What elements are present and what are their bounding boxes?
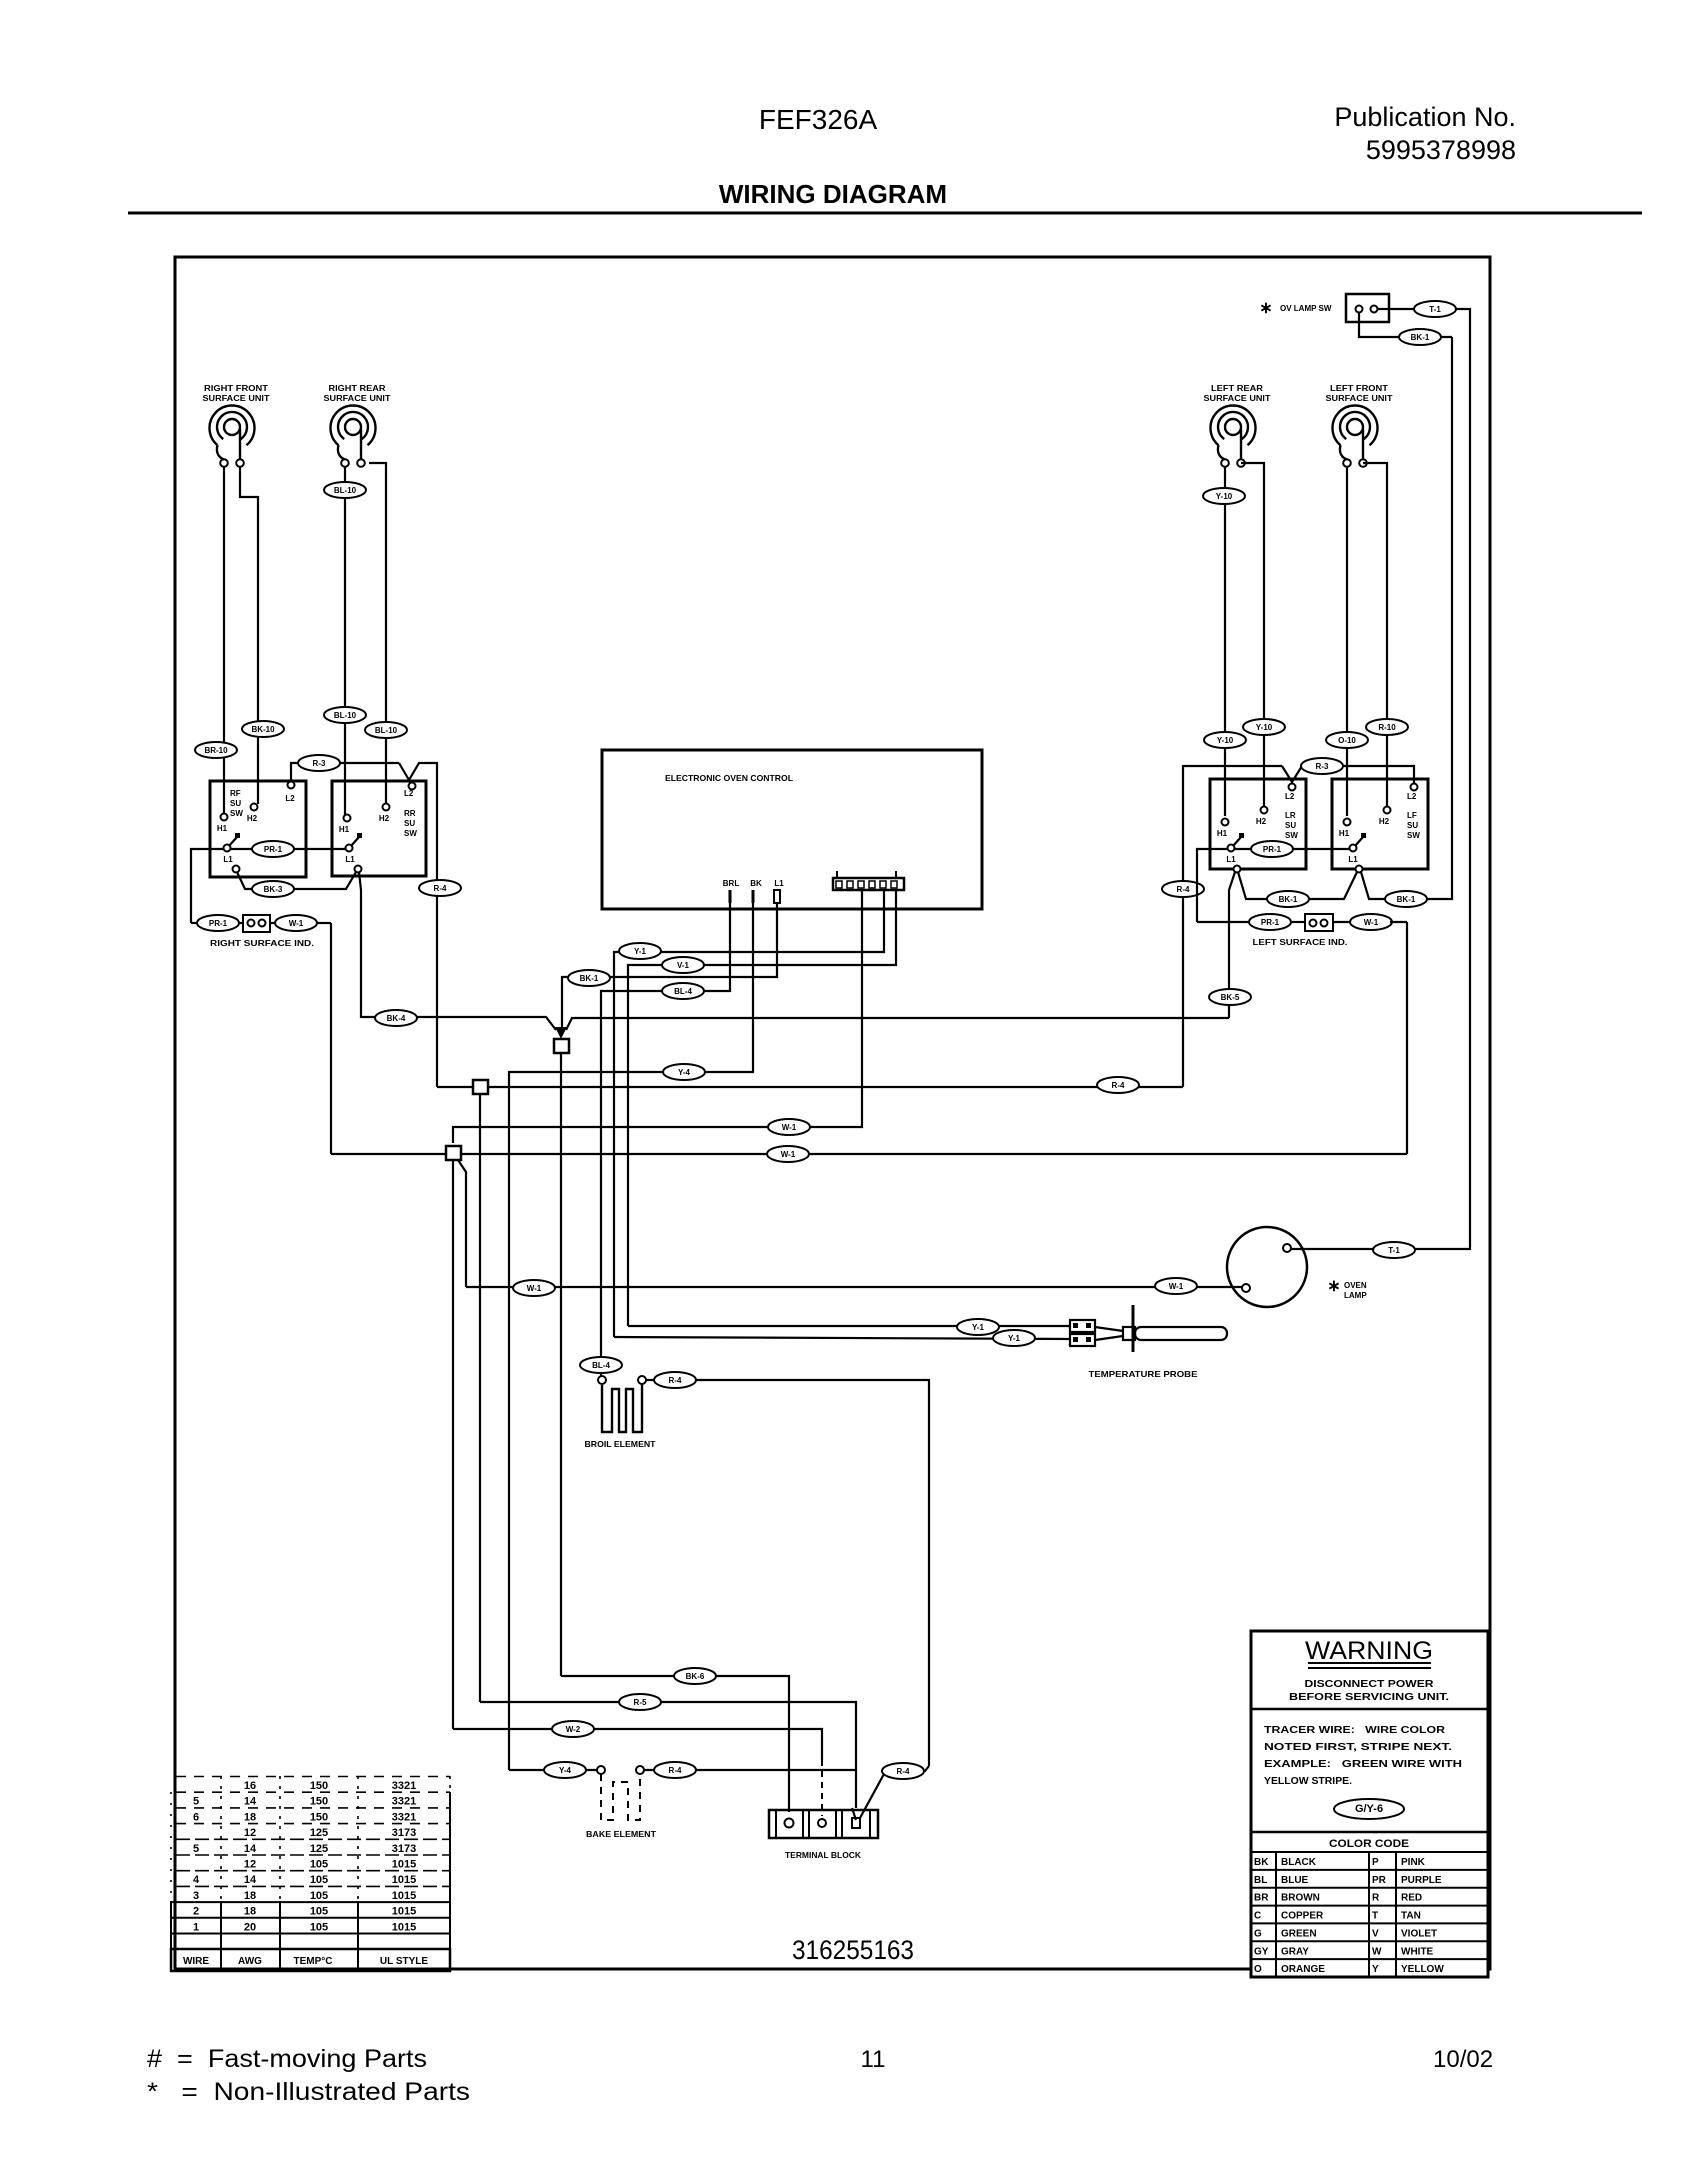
svg-text:PR-1: PR-1 [209, 919, 228, 928]
wire label BK-1 [1267, 891, 1309, 907]
svg-text:1015: 1015 [392, 1859, 416, 1871]
wire: right surface ind to W net [330, 923, 332, 1154]
junction S2 [473, 1080, 488, 1094]
svg-text:YELLOW STRIPE.: YELLOW STRIPE. [1264, 1775, 1352, 1787]
wire label G/Y-6 [1334, 1799, 1404, 1819]
svg-text:L2: L2 [1285, 792, 1295, 801]
svg-text:COPPER: COPPER [1281, 1911, 1324, 1922]
svg-text:WHITE: WHITE [1401, 1946, 1434, 1957]
color code table [1251, 1852, 1488, 1977]
wire label V-1 [662, 957, 704, 973]
wire label Y-1 [619, 943, 661, 959]
wire label Y-4 [544, 1762, 586, 1778]
wire R-5: R net to terminal block [480, 1702, 856, 1808]
svg-text:L1: L1 [1226, 855, 1236, 864]
svg-text:W-1: W-1 [1169, 1282, 1184, 1291]
wire R-3 right: vertical 1183 to LR L2 and LF L2 [1183, 766, 1282, 1087]
svg-text:5995378998: 5995378998 [1366, 135, 1516, 165]
svg-text:WIRE: WIRE [183, 1956, 209, 1967]
wire label T-1 [1414, 301, 1456, 317]
svg-text:3321: 3321 [392, 1811, 416, 1823]
svg-text:TERMINAL BLOCK: TERMINAL BLOCK [785, 1850, 862, 1860]
oven lamp switch OV LAMP SW [1259, 294, 1389, 322]
switch box RF SU SW [210, 781, 306, 877]
svg-text:3321: 3321 [392, 1796, 416, 1808]
wire label BR-10 [195, 742, 237, 758]
svg-text:COLOR CODE: COLOR CODE [1329, 1838, 1409, 1850]
wire label W-1 [767, 1146, 809, 1162]
svg-text:W-2: W-2 [566, 1725, 581, 1734]
svg-text:PR: PR [1372, 1875, 1387, 1886]
svg-text:11: 11 [861, 2046, 886, 2073]
oven lamp [1227, 1227, 1367, 1307]
wire BK-5: LR switches to junction S1 [566, 1018, 1229, 1030]
svg-text:RIGHT REAR: RIGHT REAR [329, 384, 386, 393]
svg-text:G: G [1254, 1928, 1262, 1939]
electronic oven control box [602, 750, 982, 909]
svg-text:C: C [1254, 1911, 1261, 1922]
svg-text:H2: H2 [247, 814, 258, 823]
wire W-1: connector to junction S3 [453, 890, 862, 1143]
svg-text:RED: RED [1401, 1893, 1422, 1904]
svg-text:GY: GY [1254, 1946, 1269, 1957]
svg-text:105: 105 [310, 1921, 328, 1933]
wire R: S2 down to R-5 run [479, 1094, 481, 1702]
svg-text:VIOLET: VIOLET [1401, 1928, 1437, 1939]
wire label O-10 [1326, 732, 1368, 748]
wire T-1: oven lamp to switch riser [1291, 1248, 1470, 1250]
wire label BL-10 [365, 722, 407, 738]
wire: RR L1 down to BK-4 net [359, 872, 361, 1018]
terminal block pin arrow [852, 1808, 856, 1820]
svg-text:1015: 1015 [392, 1921, 416, 1933]
svg-text:AWG: AWG [238, 1956, 262, 1967]
svg-text:H1: H1 [1217, 829, 1228, 838]
svg-text:BL-10: BL-10 [334, 486, 357, 495]
svg-text:14: 14 [244, 1796, 257, 1808]
wire Y-1: connector to temp-probe lower wire [614, 890, 884, 1337]
svg-text:LEFT FRONT: LEFT FRONT [1330, 384, 1388, 393]
wire label Y-10 [1203, 488, 1245, 504]
wire LF H1: unit to switch [1346, 467, 1348, 816]
svg-text:SW: SW [404, 829, 417, 838]
svg-text:ORANGE: ORANGE [1281, 1964, 1325, 1975]
svg-text:Y: Y [1372, 1964, 1379, 1975]
wire label T-1 [1373, 1242, 1415, 1258]
wire: LR L1 down to BK-5 net [1229, 872, 1235, 1018]
svg-text:BK: BK [750, 879, 762, 888]
svg-text:BK-10: BK-10 [251, 725, 275, 734]
wire label R-3 [298, 755, 340, 771]
svg-text:RF: RF [230, 789, 241, 798]
EOC pins BRL BK L1 [723, 879, 784, 903]
svg-text:SW: SW [1407, 831, 1420, 840]
svg-text:L1: L1 [1348, 855, 1358, 864]
svg-text:YELLOW: YELLOW [1401, 1964, 1444, 1975]
svg-text:L2: L2 [285, 794, 295, 803]
svg-text:H2: H2 [379, 814, 390, 823]
surface unit RIGHT REAR SURFACE UNIT [324, 384, 391, 467]
svg-text:T-1: T-1 [1388, 1246, 1400, 1255]
svg-text:LEFT REAR: LEFT REAR [1211, 384, 1263, 393]
svg-text:R-10: R-10 [1378, 723, 1396, 732]
svg-text:316255163: 316255163 [792, 1935, 914, 1965]
svg-text:Y-4: Y-4 [559, 1766, 572, 1775]
svg-text:R-4: R-4 [669, 1766, 682, 1775]
wire label Y-1 [993, 1330, 1035, 1346]
wire label BK-1 [568, 970, 610, 986]
wire Y-4: Y net to bake element [509, 1769, 598, 1771]
svg-text:18: 18 [244, 1890, 256, 1902]
wire label Y-10 [1204, 732, 1246, 748]
svg-text:OV LAMP SW: OV LAMP SW [1280, 304, 1332, 313]
svg-text:BK-6: BK-6 [686, 1672, 705, 1681]
wire V-1: connector to temp-probe upper wire [628, 890, 896, 1326]
wire label BK-3 [252, 881, 294, 897]
wire label BL-4 [580, 1357, 622, 1373]
svg-text:∗: ∗ [1327, 1278, 1340, 1295]
svg-text:BK: BK [1254, 1857, 1269, 1868]
wire BK-1: EOC L1 pin to junction S1 [562, 903, 777, 1028]
wire label BK-6 [674, 1668, 716, 1684]
svg-text:L1: L1 [774, 879, 784, 888]
wire label R-5 [619, 1694, 661, 1710]
svg-text:BK-3: BK-3 [264, 885, 283, 894]
svg-text:BLUE: BLUE [1281, 1875, 1309, 1886]
wire label R-10 [1366, 719, 1408, 735]
svg-text:TRACER WIRE: WIRE COLOR: TRACER WIRE: WIRE COLOR [1264, 1724, 1445, 1736]
svg-text:DISCONNECT POWER: DISCONNECT POWER [1305, 1678, 1434, 1690]
wire label R-4 [1097, 1077, 1139, 1093]
wire label R-4 [882, 1763, 924, 1779]
svg-text:105: 105 [310, 1874, 328, 1886]
broil element [585, 1376, 657, 1449]
svg-text:Publication No.: Publication No. [1334, 102, 1516, 132]
terminal block [769, 1810, 878, 1860]
svg-text:WARNING: WARNING [1305, 1637, 1433, 1665]
svg-text:BL-10: BL-10 [375, 726, 398, 735]
svg-text:LEFT SURFACE IND.: LEFT SURFACE IND. [1253, 938, 1348, 947]
svg-text:R-3: R-3 [1316, 762, 1329, 771]
wire RR H1: unit to switch [344, 467, 346, 815]
svg-text:BK-5: BK-5 [1221, 993, 1240, 1002]
svg-text:GREEN: GREEN [1281, 1928, 1317, 1939]
svg-text:PR-1: PR-1 [1261, 918, 1280, 927]
indicator LEFT SURFACE IND. [1197, 914, 1407, 947]
svg-text:1015: 1015 [392, 1906, 416, 1918]
wire label BK-4 [375, 1010, 417, 1026]
bake element (dashed) [586, 1766, 657, 1839]
wire: lamp switch to T-1 riser [1378, 309, 1470, 1250]
wire R-4: left R vertical to right R vertical through S2 [437, 1086, 1183, 1088]
svg-text:6: 6 [193, 1811, 199, 1823]
svg-text:L2: L2 [1407, 792, 1417, 801]
svg-text:W-1: W-1 [781, 1150, 796, 1159]
wire W-2: W net to terminal block [453, 1729, 822, 1760]
svg-text:BK-4: BK-4 [387, 1014, 406, 1023]
svg-text:BROIL ELEMENT: BROIL ELEMENT [585, 1439, 657, 1449]
svg-text:125: 125 [310, 1843, 328, 1855]
svg-text:3: 3 [193, 1890, 199, 1902]
svg-text:V-1: V-1 [677, 961, 690, 970]
temperature probe [1070, 1305, 1227, 1379]
wire label BK-1 [1399, 329, 1441, 345]
svg-text:150: 150 [310, 1811, 328, 1823]
wire label W-2 [552, 1721, 594, 1737]
svg-text:SW: SW [1285, 831, 1298, 840]
svg-text:O-10: O-10 [1338, 736, 1356, 745]
svg-text:BR-10: BR-10 [204, 746, 228, 755]
wire label BL-10 [324, 707, 366, 723]
svg-text:3173: 3173 [392, 1827, 416, 1839]
warning box [147, 1631, 1493, 2106]
wire label R-4 [1162, 881, 1204, 897]
svg-text:TAN: TAN [1401, 1911, 1421, 1922]
svg-text:BK-1: BK-1 [1411, 333, 1430, 342]
svg-text:V: V [1372, 1928, 1379, 1939]
wire label PR-1 [1249, 914, 1291, 930]
svg-text:W: W [1372, 1946, 1382, 1957]
svg-text:RR: RR [404, 809, 416, 818]
svg-text:5: 5 [193, 1843, 199, 1855]
wire label BK-1 [1385, 891, 1427, 907]
svg-text:1: 1 [193, 1921, 199, 1933]
svg-text:TEMPERATURE PROBE: TEMPERATURE PROBE [1089, 1369, 1198, 1379]
svg-text:SURFACE UNIT: SURFACE UNIT [1204, 394, 1271, 403]
wire label BK-5 [1209, 989, 1251, 1005]
svg-text:W-1: W-1 [527, 1284, 542, 1293]
wire label R-4 [419, 880, 461, 896]
svg-text:H1: H1 [1339, 829, 1350, 838]
svg-text:* = Non-Illustrated Parts: * = Non-Illustrated Parts [147, 2078, 470, 2106]
wire label R-3 [1301, 758, 1343, 774]
svg-text:3321: 3321 [392, 1780, 416, 1792]
svg-text:W-1: W-1 [782, 1123, 797, 1132]
svg-text:T: T [1372, 1911, 1378, 1922]
svg-text:BK-1: BK-1 [1279, 895, 1298, 904]
svg-text:Y-10: Y-10 [1256, 723, 1273, 732]
svg-text:P: P [1372, 1857, 1379, 1868]
svg-text:18: 18 [244, 1906, 256, 1918]
svg-text:H2: H2 [1379, 817, 1390, 826]
wire RF H1: unit to switch [223, 467, 225, 813]
wire label W-1 [513, 1280, 555, 1296]
switch box LR SU SW [1210, 779, 1306, 873]
wire LF H2: unit to switch [1363, 463, 1387, 806]
svg-text:12: 12 [244, 1859, 256, 1871]
svg-text:# = Fast-moving Parts: # = Fast-moving Parts [147, 2045, 427, 2073]
svg-text:Y-10: Y-10 [1216, 492, 1233, 501]
wire label BL-4 [662, 983, 704, 999]
svg-text:BR: BR [1254, 1893, 1269, 1904]
wire Y-4: EOC BK pin to bake riser [509, 903, 753, 1770]
EOC connector strip [833, 871, 904, 890]
wire BK-3: RF L1 to RR L1 [237, 872, 356, 889]
wire BK-1: LF L1 right to lamp switch riser [1361, 337, 1452, 899]
wire label R-4 [654, 1762, 696, 1778]
svg-text:R-4: R-4 [1177, 885, 1190, 894]
wire label Y-1 [957, 1319, 999, 1335]
wire label PR-1 [197, 915, 239, 931]
junction S1 [554, 1039, 569, 1053]
svg-text:125: 125 [310, 1827, 328, 1839]
svg-text:RIGHT FRONT: RIGHT FRONT [204, 384, 268, 393]
title rule [128, 212, 1642, 215]
wire BL-4: EOC BRL pin to broil element [601, 903, 730, 1376]
svg-text:SU: SU [230, 799, 241, 808]
svg-text:BL-4: BL-4 [592, 1361, 610, 1370]
svg-text:R-5: R-5 [634, 1698, 647, 1707]
svg-text:H2: H2 [1256, 817, 1267, 826]
svg-text:BROWN: BROWN [1281, 1893, 1320, 1904]
svg-text:R-3: R-3 [313, 759, 326, 768]
svg-text:∗: ∗ [1259, 300, 1272, 317]
wire gauge table [171, 1776, 450, 1971]
wire Y-1: temp probe upper feed [628, 1325, 1070, 1327]
wire W: S3 diagonal to oven lamp feed [458, 1160, 466, 1287]
svg-text:PR-1: PR-1 [1263, 845, 1282, 854]
svg-text:RIGHT SURFACE IND.: RIGHT SURFACE IND. [210, 939, 314, 948]
svg-text:BEFORE SERVICING UNIT.: BEFORE SERVICING UNIT. [1289, 1691, 1449, 1703]
svg-text:16: 16 [244, 1780, 256, 1792]
svg-text:4: 4 [193, 1874, 200, 1886]
svg-text:SU: SU [404, 819, 415, 828]
junction S1 arrowhead [555, 1027, 567, 1039]
svg-text:105: 105 [310, 1859, 328, 1871]
svg-text:Y-1: Y-1 [972, 1323, 985, 1332]
svg-text:18: 18 [244, 1811, 256, 1823]
surface unit LEFT REAR SURFACE UNIT [1204, 384, 1271, 467]
svg-text:R-4: R-4 [434, 884, 447, 893]
wire BK-6: BK net to terminal block [561, 1676, 789, 1812]
svg-text:Y-1: Y-1 [634, 947, 647, 956]
wire W-1: oven lamp feed [466, 1286, 1244, 1288]
svg-text:SU: SU [1285, 821, 1296, 830]
wire label W-1 [275, 915, 317, 931]
wire RR H2: unit to switch [369, 463, 386, 804]
svg-text:14: 14 [244, 1874, 257, 1886]
svg-text:L1: L1 [345, 855, 355, 864]
svg-text:Y-4: Y-4 [678, 1068, 691, 1077]
wire BK: S1 down to BK-6 run [560, 1053, 562, 1676]
wire PR-1 left: lever bus [191, 849, 224, 923]
svg-text:R-4: R-4 [897, 1767, 910, 1776]
svg-text:14: 14 [244, 1843, 257, 1855]
svg-text:OVEN: OVEN [1344, 1281, 1367, 1290]
svg-text:PURPLE: PURPLE [1401, 1875, 1442, 1886]
svg-text:PR-1: PR-1 [264, 845, 283, 854]
wire label Y-10 [1243, 719, 1285, 735]
wire label R-4 [654, 1372, 696, 1388]
svg-text:G/Y-6: G/Y-6 [1355, 1803, 1383, 1815]
svg-text:5: 5 [193, 1796, 199, 1808]
svg-text:LAMP: LAMP [1344, 1291, 1367, 1300]
svg-text:BL: BL [1254, 1875, 1267, 1886]
svg-text:Y-10: Y-10 [1217, 736, 1234, 745]
switch box RR SU SW [332, 781, 426, 876]
svg-text:WIRING DIAGRAM: WIRING DIAGRAM [719, 179, 947, 209]
svg-text:L1: L1 [223, 855, 233, 864]
svg-text:105: 105 [310, 1906, 328, 1918]
svg-text:T-1: T-1 [1429, 305, 1441, 314]
wire: left surface ind to W net [1406, 922, 1408, 1154]
svg-text:PINK: PINK [1401, 1857, 1426, 1868]
svg-text:SURFACE UNIT: SURFACE UNIT [203, 394, 270, 403]
svg-text:20: 20 [244, 1921, 256, 1933]
wire label BL-10 [324, 482, 366, 498]
wire BK-1: LR L1 to LF L1 [1238, 872, 1357, 899]
wire label W-1 [1350, 914, 1392, 930]
wire PR-1 right: lever bus [1197, 849, 1228, 922]
wire Y-1: temp probe lower feed [614, 1337, 1070, 1339]
wire label Y-4 [663, 1064, 705, 1080]
wire R-3 left: RF L2 to RR L2, down to R net [291, 763, 399, 781]
svg-text:BK-1: BK-1 [1397, 895, 1416, 904]
wire label W-1 [768, 1119, 810, 1135]
svg-text:TEMP°C: TEMP°C [294, 1956, 333, 1967]
wire LB H2: unit to switch [1241, 463, 1264, 806]
wire label BK-10 [242, 721, 284, 737]
svg-text:BL-10: BL-10 [334, 711, 357, 720]
svg-text:2: 2 [193, 1906, 199, 1918]
svg-text:H1: H1 [217, 824, 228, 833]
svg-text:BL-4: BL-4 [674, 987, 692, 996]
svg-text:150: 150 [310, 1780, 328, 1792]
svg-text:LR: LR [1285, 811, 1296, 820]
svg-text:SW: SW [230, 809, 243, 818]
svg-text:W-1: W-1 [1364, 918, 1379, 927]
surface unit LEFT FRONT SURFACE UNIT [1326, 384, 1393, 467]
wire R-4: broil element to terminal block riser [646, 1380, 929, 1766]
svg-text:FEF326A: FEF326A [759, 104, 878, 135]
svg-text:3173: 3173 [392, 1843, 416, 1855]
indicator RIGHT SURFACE IND. [191, 915, 331, 948]
svg-text:H1: H1 [339, 825, 350, 834]
svg-text:Y-1: Y-1 [1008, 1334, 1021, 1343]
wire W-1: W net long run to left surface ind riser [331, 1153, 1407, 1155]
svg-text:BK-1: BK-1 [580, 974, 599, 983]
svg-text:BLACK: BLACK [1281, 1857, 1317, 1868]
svg-text:UL STYLE: UL STYLE [380, 1956, 428, 1967]
surface unit RIGHT FRONT SURFACE UNIT [203, 384, 270, 467]
svg-text:10/02: 10/02 [1433, 2046, 1493, 2073]
svg-text:1015: 1015 [392, 1890, 416, 1902]
svg-text:105: 105 [310, 1890, 328, 1902]
junction S3 [446, 1146, 461, 1160]
svg-text:O: O [1254, 1964, 1262, 1975]
svg-text:GRAY: GRAY [1281, 1946, 1309, 1957]
wire BK-4: RR switches to junction S1 [361, 1017, 556, 1030]
svg-text:R-4: R-4 [1112, 1081, 1125, 1090]
wire label PR-1 [1251, 841, 1293, 857]
svg-text:SURFACE UNIT: SURFACE UNIT [324, 394, 391, 403]
svg-text:R-4: R-4 [669, 1376, 682, 1385]
svg-text:SU: SU [1407, 821, 1418, 830]
svg-text:LF: LF [1407, 811, 1417, 820]
wire R-4: broil riser into terminal block [881, 1766, 929, 1771]
wire label W-1 [1155, 1278, 1197, 1294]
wire label PR-1 [252, 841, 294, 857]
wire W: S3 down to W-2 run [452, 1160, 454, 1729]
wire RF H2: unit to switch [240, 467, 258, 804]
switch box LF SU SW [1332, 779, 1428, 873]
wire: lamp switch BK-1 drop [1359, 313, 1452, 337]
svg-text:150: 150 [310, 1796, 328, 1808]
svg-text:EXAMPLE: GREEN WIRE WITH: EXAMPLE: GREEN WIRE WITH [1264, 1758, 1462, 1770]
wire LB H1: unit to switch [1224, 467, 1226, 816]
svg-text:R: R [1372, 1893, 1380, 1904]
svg-text:ELECTRONIC OVEN CONTROL: ELECTRONIC OVEN CONTROL [665, 773, 793, 783]
